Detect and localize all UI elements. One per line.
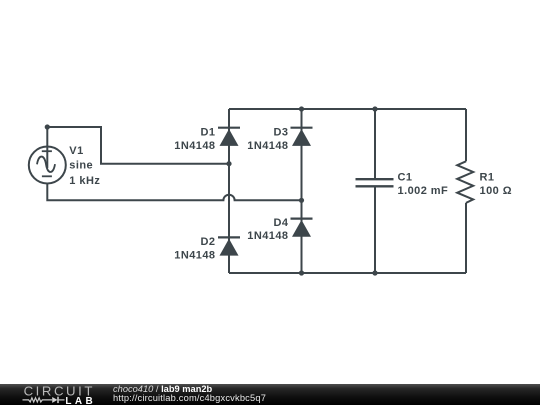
svg-text:http://circuitlab.com/c4bgxcvk: http://circuitlab.com/c4bgxcvkbc5q7 bbox=[113, 393, 266, 403]
svg-text:LAB: LAB bbox=[65, 396, 96, 405]
